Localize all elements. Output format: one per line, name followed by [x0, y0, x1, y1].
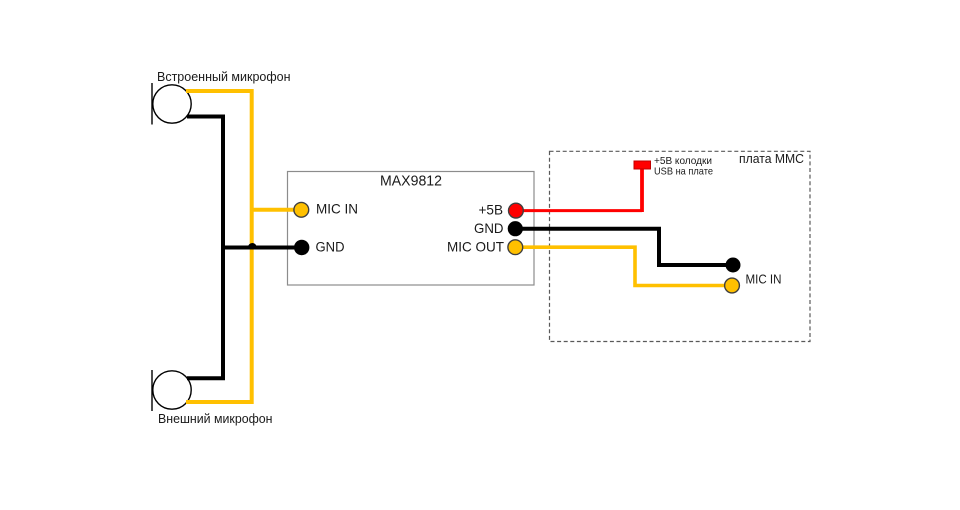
svg-text:Встроенный микрофон: Встроенный микрофон: [157, 69, 291, 84]
svg-text:MIC IN: MIC IN: [746, 272, 782, 287]
wire red: +5V from USB header to +5B pin: [516, 209, 642, 212]
microphone MIC1 (built-in): [152, 83, 191, 125]
microphone MIC2 (external): [152, 370, 191, 411]
connector J1 +5V USB header (red pad): [634, 161, 651, 169]
node GND on MMC board (black dot): [726, 258, 741, 273]
pin U1 MIC OUT (right, yellow): [508, 240, 523, 255]
wire yellow: MIC OUT pin to MMC MIC IN: [515, 247, 732, 285]
node MIC IN on MMC board (yellow dot): [725, 278, 740, 293]
svg-text:Внешний микрофон: Внешний микрофон: [158, 411, 273, 426]
wire hop (black jumps over yellow): [248, 243, 257, 247]
pin U1 MIC IN (left, yellow): [294, 202, 309, 217]
svg-text:GND: GND: [474, 220, 504, 236]
wire black branch to GND pin: [223, 246, 302, 250]
pin U1 GND (left, black): [294, 240, 309, 255]
svg-text:MAX9812: MAX9812: [380, 174, 442, 190]
svg-text:USB на плате: USB на плате: [654, 166, 713, 178]
svg-text:MIC OUT: MIC OUT: [447, 238, 504, 254]
pin U1 +5B (right, red): [509, 203, 524, 218]
svg-text:+5В: +5В: [479, 202, 504, 218]
svg-text:GND: GND: [316, 240, 345, 255]
wire black: mic1/mic2 ground bus: [187, 117, 302, 379]
pin U1 GND (right, black): [508, 221, 523, 236]
IC U1 MAX9812 body: [288, 172, 535, 286]
wire black: GND pin to MMC board: [515, 229, 733, 265]
MMC board (dashed outline): [550, 151, 811, 341]
wire red vertical to USB pad: [640, 166, 644, 212]
svg-text:MIC IN: MIC IN: [316, 201, 358, 217]
svg-text:плата ММС: плата ММС: [739, 151, 804, 166]
wire yellow: mic1/mic2 bus with branch to MIC IN pin: [186, 91, 301, 402]
